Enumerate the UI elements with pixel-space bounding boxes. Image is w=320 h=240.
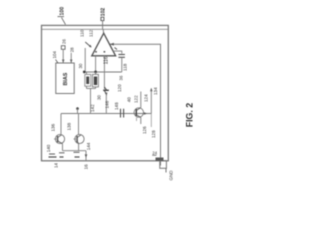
svg-text:138: 138 bbox=[67, 122, 72, 130]
svg-text:104: 104 bbox=[52, 51, 57, 59]
svg-text:146: 146 bbox=[104, 100, 109, 108]
svg-text:142: 142 bbox=[90, 104, 95, 112]
svg-text:36: 36 bbox=[119, 75, 124, 80]
svg-text:144: 144 bbox=[86, 142, 91, 150]
svg-text:110: 110 bbox=[80, 29, 85, 37]
svg-text:100: 100 bbox=[60, 7, 66, 16]
svg-text:30: 30 bbox=[78, 63, 83, 68]
svg-text:14: 14 bbox=[54, 162, 59, 168]
svg-text:BIAS: BIAS bbox=[63, 72, 69, 85]
svg-text:148: 148 bbox=[114, 102, 119, 110]
svg-text:126: 126 bbox=[142, 126, 147, 134]
svg-text:112: 112 bbox=[89, 29, 94, 37]
svg-text:FIG. 2: FIG. 2 bbox=[184, 103, 194, 128]
svg-text:24: 24 bbox=[152, 150, 157, 155]
svg-text:116: 116 bbox=[103, 56, 109, 64]
svg-text:102: 102 bbox=[101, 8, 107, 17]
svg-text:26: 26 bbox=[62, 39, 67, 44]
svg-text:128: 128 bbox=[151, 130, 156, 138]
svg-text:134: 134 bbox=[153, 87, 158, 95]
svg-text:124: 124 bbox=[144, 94, 149, 102]
svg-text:140: 140 bbox=[46, 144, 51, 152]
svg-text:40: 40 bbox=[127, 97, 132, 103]
svg-text:30: 30 bbox=[97, 95, 102, 100]
svg-text:122: 122 bbox=[134, 95, 139, 103]
svg-text:120: 120 bbox=[117, 84, 122, 92]
svg-text:16: 16 bbox=[83, 164, 89, 170]
svg-text:28: 28 bbox=[70, 47, 75, 52]
svg-text:136: 136 bbox=[51, 123, 56, 131]
svg-text:118: 118 bbox=[123, 63, 128, 71]
svg-text:GND: GND bbox=[168, 170, 173, 181]
